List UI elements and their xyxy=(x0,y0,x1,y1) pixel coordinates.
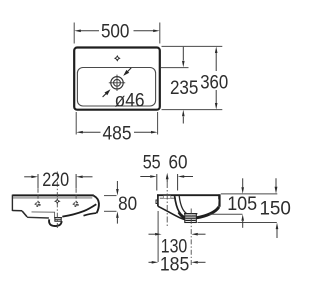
drain crosshair horizontal xyxy=(109,82,125,84)
drain hole: inner circle xyxy=(114,79,121,86)
svg-text:60: 60 xyxy=(169,152,188,174)
side view: bowl inner curve A xyxy=(175,196,197,219)
svg-text:235: 235 xyxy=(170,77,199,99)
side view: back wall xyxy=(157,194,159,206)
front view: bowl interior bottom line left xyxy=(32,212,55,218)
svg-text:500: 500 xyxy=(101,21,130,43)
side view: front lip white pocket xyxy=(214,199,218,205)
extension line top-right (y=46.4) xyxy=(162,45,223,47)
drain hole: outer circle xyxy=(111,77,123,89)
side view: bowl bottom dark wedge xyxy=(179,212,186,218)
side view: back underside to bowl xyxy=(158,206,185,220)
extension line 150 bottom xyxy=(198,222,277,224)
front view: center dash-dot line xyxy=(56,172,58,229)
svg-text:360: 360 xyxy=(200,72,228,94)
extension line 105 bottom xyxy=(210,213,243,215)
extension line bottom-right (y=109.6) xyxy=(162,109,223,111)
front view: drain box xyxy=(54,218,62,222)
dimension 360: line with arrows inside xyxy=(215,47,218,110)
dimension 55/60: left arrow xyxy=(140,175,156,178)
side view: deck underside line xyxy=(160,197,176,199)
front view: left faucet cross (dashed circle-cross) xyxy=(35,201,42,208)
dimension 105: arrows xyxy=(241,178,244,228)
side view: drain block stripes xyxy=(184,214,197,223)
dimension 185: arrows xyxy=(149,261,206,264)
front view: step down diagonal xyxy=(22,211,27,217)
side view: faucet hole notch xyxy=(163,196,171,198)
side view: front face xyxy=(218,194,220,206)
side view: faucet axis dashed line xyxy=(166,182,168,227)
extension line side-view top right xyxy=(221,193,277,195)
extension line inner-top (y=67.6) xyxy=(161,67,189,69)
front view: left edge xyxy=(11,195,13,211)
front view: rising apron edge curve (upper) xyxy=(62,204,96,216)
svg-text:105: 105 xyxy=(227,193,257,215)
side view: back bump xyxy=(156,200,158,204)
drain crosshair vertical xyxy=(116,75,118,91)
front view: apron bottom line xyxy=(27,216,49,219)
svg-text:55: 55 xyxy=(143,152,161,174)
dimension 235: arrows outside pointing inward xyxy=(182,47,185,124)
dimension 500: line and arrows xyxy=(74,30,159,33)
dimension 220: arrows pointing inward xyxy=(24,176,92,179)
side view: bowl inner curve B xyxy=(179,196,189,215)
dimension 55/60: right arrow xyxy=(178,175,193,178)
dimension 130: arrows xyxy=(149,233,206,236)
top view: outer basin rectangle xyxy=(74,48,160,110)
dimension 80: extension lines xyxy=(104,195,117,197)
front view: right faucet cross (dashed circle-cross) xyxy=(73,201,80,208)
front view: faucet star marker center xyxy=(54,198,61,205)
front view: right hole dash line xyxy=(75,189,77,200)
front view: left hole dash line xyxy=(37,189,39,200)
side view: right limb thick band xyxy=(196,207,219,218)
svg-text:485: 485 xyxy=(103,123,132,145)
side view: top edge xyxy=(157,194,220,196)
dimension 55/60: middle up arrow xyxy=(166,173,169,182)
dimension 485: extension lines xyxy=(75,112,77,135)
extension line A (back, vertical) xyxy=(157,211,159,262)
dimension 500: extension lines xyxy=(73,23,75,44)
front view: trap U curve xyxy=(49,219,62,226)
faucet hole marker (4-point star) xyxy=(114,55,121,62)
front view: rim inner thin line xyxy=(13,197,92,199)
leader arrow upper-right pointing at drain xyxy=(123,68,131,76)
dimension 485: line and arrows xyxy=(76,131,157,134)
svg-text:150: 150 xyxy=(259,197,291,219)
dimension 150: arrows xyxy=(275,178,279,238)
leader arrow lower-left pointing at drain xyxy=(103,89,111,97)
svg-text:80: 80 xyxy=(118,193,137,215)
svg-text:ø46: ø46 xyxy=(115,90,145,112)
dimension 220: ticks xyxy=(37,174,39,189)
svg-text:220: 220 xyxy=(42,169,69,191)
top view: inner bowl rounded rectangle xyxy=(77,68,155,107)
dimension 55/60: ticks xyxy=(156,174,158,191)
svg-text:185: 185 xyxy=(160,253,190,275)
front view: top edge xyxy=(12,194,93,196)
front view: lower tail line to tip xyxy=(84,213,97,216)
side view: drain axis dash-dot line xyxy=(190,209,192,267)
front view: bottom left rim line xyxy=(12,210,22,212)
dimension 80: arrows outside pointing inward xyxy=(116,181,119,224)
front view: right rolled edge outer arc xyxy=(94,196,99,213)
